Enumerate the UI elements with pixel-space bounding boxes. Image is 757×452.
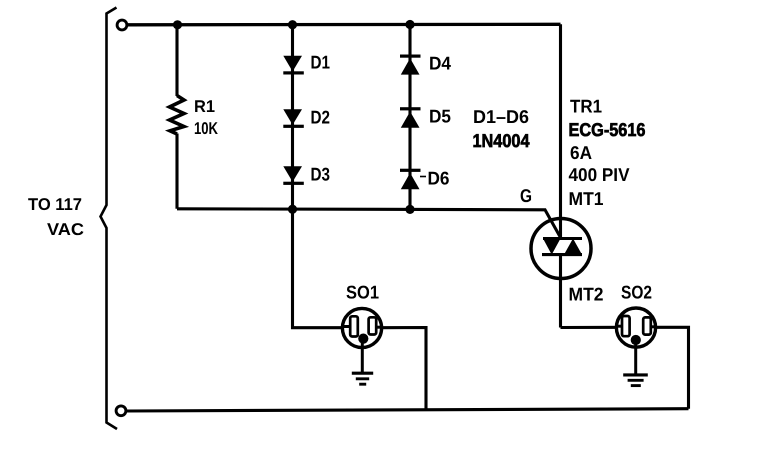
svg-text:VAC: VAC: [47, 220, 84, 239]
svg-text:D2: D2: [311, 106, 331, 127]
svg-text:MT1: MT1: [569, 188, 604, 209]
svg-text:G: G: [520, 185, 532, 206]
svg-text:D6: D6: [428, 168, 450, 189]
svg-text:1N4004: 1N4004: [473, 130, 531, 151]
svg-text:400 PIV: 400 PIV: [569, 164, 631, 185]
svg-text:SO1: SO1: [346, 281, 379, 302]
svg-text:D4: D4: [429, 53, 452, 74]
svg-text:10K: 10K: [194, 119, 219, 138]
svg-text:D1: D1: [311, 51, 331, 72]
svg-text:6A: 6A: [570, 142, 592, 163]
svg-text:TO 117: TO 117: [28, 195, 82, 214]
svg-text:ECG-5616: ECG-5616: [569, 119, 646, 140]
svg-text:D1–D6: D1–D6: [473, 106, 529, 127]
svg-text:MT2: MT2: [569, 283, 604, 304]
svg-text:TR1: TR1: [570, 95, 602, 116]
svg-text:R1: R1: [194, 97, 215, 116]
svg-text:D5: D5: [429, 106, 451, 127]
svg-text:SO2: SO2: [621, 281, 652, 302]
svg-text:D3: D3: [311, 163, 331, 184]
